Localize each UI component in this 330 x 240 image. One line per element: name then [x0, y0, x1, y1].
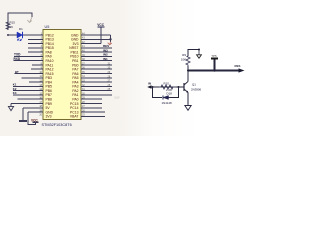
wire from pin 3V3 (right row 3) — [81, 43, 101, 45]
tiny end labels right — [108, 62, 120, 99]
wire from pin PB11 (right row 5) — [81, 51, 112, 53]
svg-text:BT: BT — [15, 70, 19, 74]
wire to pin PA10 (left row 7) — [14, 60, 44, 62]
wire to pin PA12 (left row 9) — [31, 68, 43, 70]
svg-text:10K: 10K — [181, 58, 186, 62]
collector rail wire — [188, 70, 241, 72]
wire from pin GND (right row 1) — [81, 34, 111, 36]
resistor R15 — [6, 21, 10, 30]
svg-text:1K: 1K — [10, 25, 14, 29]
power arrow below row16 wire — [8, 103, 13, 110]
svg-text:Q1: Q1 — [192, 83, 196, 87]
wire to pin 5V (left row 18) — [23, 107, 43, 109]
ground arrow under emitter — [185, 105, 191, 111]
pull-up resistor R9 — [186, 56, 190, 66]
wire R9 bottom to rail — [187, 66, 189, 71]
VCC loop bottom — [28, 112, 39, 124]
wire from pin PA6 (right row 10) — [81, 73, 112, 75]
wire to pin PB13 (left row 2) — [28, 38, 43, 40]
test point TP5 — [214, 59, 216, 71]
collector wire — [187, 71, 189, 82]
wire to pin PB15 (left row 4) — [28, 47, 43, 49]
svg-text:VCC: VCC — [31, 118, 38, 122]
svg-text:20: 20 — [39, 114, 42, 117]
wire from pin PA5 (right row 11) — [81, 77, 112, 79]
svg-text:R9: R9 — [182, 53, 186, 57]
wire from pin PB0 (right row 8) — [81, 64, 112, 66]
net labels right — [103, 44, 109, 61]
wire to pin PA8 (left row 5) — [28, 51, 43, 53]
base wire — [151, 86, 184, 88]
wire from pin PB1 (right row 7) — [81, 60, 112, 62]
input arrow IN — [147, 85, 151, 88]
right pin numbers — [82, 32, 85, 116]
wire from pin PB10 (right row 6) — [81, 55, 112, 57]
junction at power stem — [198, 49, 200, 51]
svg-text:3V3: 3V3 — [46, 115, 52, 119]
power stem — [198, 50, 200, 55]
svg-text:1N4148: 1N4148 — [162, 101, 173, 105]
ground arrow (dark red) — [108, 42, 112, 45]
junction node — [7, 34, 9, 36]
wire from pin PC14 (right row 18) — [81, 107, 102, 109]
svg-text:5.0V: 5.0V — [115, 96, 120, 99]
diode branch wires — [153, 87, 179, 98]
ground symbol bottom-left — [19, 108, 27, 121]
wire loop to power (top-left) — [8, 13, 32, 30]
svg-text:K3: K3 — [13, 91, 17, 95]
wire from pin PA3 (right row 13) — [81, 85, 112, 87]
svg-text:2N3906: 2N3906 — [191, 88, 202, 92]
wire from pin PA1 (right row 15) — [81, 94, 112, 96]
wire to pin PB9 (left row 17) — [11, 102, 43, 104]
svg-text:STM32F103C8T6: STM32F103C8T6 — [42, 123, 72, 127]
wire to pin PB5 (left row 13) — [13, 85, 43, 87]
wire to pin PA15 (left row 10) — [15, 73, 44, 75]
svg-text:RXD: RXD — [14, 57, 21, 61]
wire from pin VBAT (right row 20) — [81, 115, 105, 117]
left pin numbers — [39, 32, 42, 116]
wire from pin PA0 (right row 16) — [81, 98, 102, 100]
left pin names — [46, 33, 54, 118]
emitter wire — [187, 93, 189, 105]
wire joining GND pins — [110, 35, 112, 42]
wire from pin PA4 (right row 12) — [81, 81, 112, 83]
right pin names — [69, 33, 79, 118]
wire to pin PB8 (left row 16) — [18, 98, 44, 100]
svg-text:D18: D18 — [167, 92, 173, 96]
wire to pin PA11 (left row 8) — [32, 64, 43, 66]
wire R9 top to power — [188, 50, 199, 57]
svg-text:R15: R15 — [10, 21, 16, 25]
resistor R10 — [159, 85, 176, 89]
svg-text:IN1: IN1 — [103, 57, 108, 61]
wire to pin PB3 (left row 11) — [22, 77, 44, 79]
wire from pin PA2 (right row 14) — [81, 90, 112, 92]
wire 3V3 pin to VCC stem — [100, 27, 102, 44]
wire from pin PC13 (right row 19) — [81, 111, 105, 113]
svg-text:TP5: TP5 — [211, 54, 217, 58]
diode D18 1N4148 — [163, 96, 169, 100]
svg-text:R10: R10 — [164, 81, 170, 85]
svg-text:IN: IN — [148, 81, 151, 85]
wire to pin PB12 (left row 1) — [24, 34, 44, 36]
svg-text:D1: D1 — [19, 27, 23, 31]
wire to pin PB14 (left row 3) — [28, 43, 43, 45]
wire from pin PC15 (right row 17) — [81, 102, 102, 104]
rail arrow end — [239, 68, 245, 72]
wire to pin PB4 (left row 12) — [29, 81, 43, 83]
svg-text:RES: RES — [235, 64, 241, 68]
wire to pin GND (left row 19) — [28, 111, 43, 113]
wire from pin PA7 (right row 9) — [81, 68, 112, 70]
LED D1 — [17, 32, 24, 41]
MCU U5 STM32F103C8T6 body — [43, 30, 81, 120]
wire to pin PB6 (left row 14) — [13, 90, 43, 92]
svg-text:U5: U5 — [45, 25, 50, 29]
svg-text:VBAT: VBAT — [70, 115, 79, 119]
wire from pin NRST (right row 4) — [81, 47, 112, 49]
node dots — [152, 86, 154, 88]
power arrow symbol (faint) — [27, 17, 32, 23]
power triangle — [197, 55, 202, 58]
wire to pin PB7 (left row 15) — [13, 94, 43, 96]
transistor Q1 — [184, 82, 188, 93]
junction GND pins — [109, 38, 111, 40]
wire to pin PA9 (left row 6) — [14, 55, 43, 57]
schematic paper tint — [0, 0, 330, 136]
wire from pin GND (right row 2) — [81, 38, 111, 40]
